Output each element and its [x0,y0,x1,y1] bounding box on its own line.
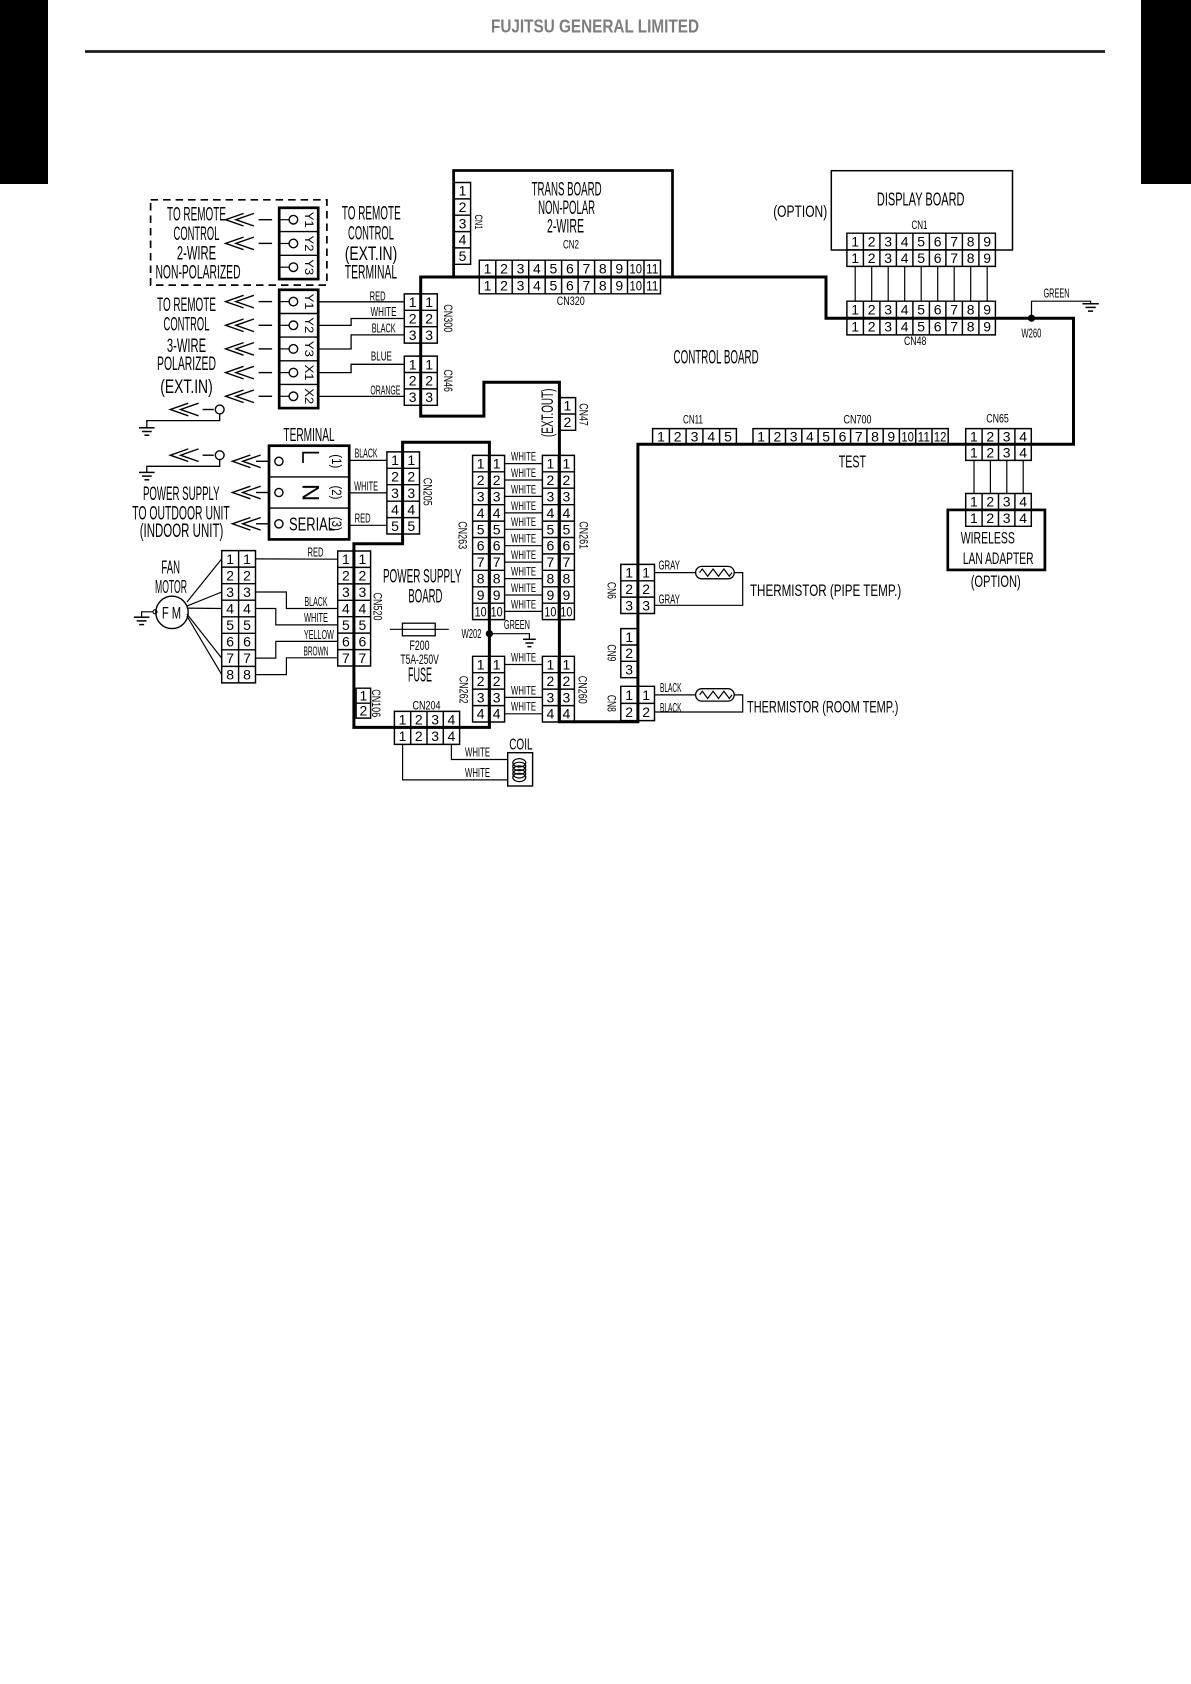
svg-text:1: 1 [970,494,978,510]
wire RED terminal3-CN205.5 [349,524,387,526]
svg-text:4: 4 [226,601,234,617]
svg-text:WHITE: WHITE [511,499,536,513]
svg-text:CONTROL BOARD: CONTROL BOARD [674,348,759,369]
connector CN46 [404,356,437,405]
svg-text:1: 1 [484,277,492,293]
page title FUJITSU GENERAL LIMITED [491,16,699,37]
label TO REMOTE CONTROL 3-WIRE POLARIZED (EXT.IN) [157,295,216,398]
svg-text:SERIAL: SERIAL [289,514,335,534]
wire GREEN to earth [1032,301,1091,318]
svg-text:3: 3 [493,488,501,504]
svg-text:7: 7 [477,554,485,570]
svg-text:5: 5 [493,521,501,537]
labels WHITE (10) [511,450,536,612]
fuse F200 T5A-250V [402,623,435,636]
svg-text:1: 1 [757,428,765,444]
label GREEN W202 [504,618,530,632]
svg-text:1: 1 [851,250,859,266]
svg-text:8: 8 [547,571,555,587]
svg-text:11: 11 [646,261,659,277]
label WHITE fan [304,611,328,625]
svg-text:3: 3 [884,302,892,318]
svg-text:2: 2 [409,311,417,327]
svg-text:TO REMOTE: TO REMOTE [342,203,401,224]
svg-text:2: 2 [391,469,399,485]
svg-text:4: 4 [493,706,501,722]
svg-text:6: 6 [563,538,571,554]
label CN65 [986,412,1009,426]
svg-text:7: 7 [359,650,367,666]
svg-text:BLACK: BLACK [660,701,682,715]
svg-text:2: 2 [868,234,876,250]
svg-text:1: 1 [459,183,467,199]
svg-text:6: 6 [934,302,942,318]
label (EXT.OUT) [538,389,557,438]
label CN1 (display board) [912,218,928,232]
label BLACK CN8.1 [660,681,682,695]
svg-text:CN48: CN48 [904,334,927,348]
svg-text:4: 4 [547,505,555,521]
svg-text:DISPLAY BOARD: DISPLAY BOARD [877,189,965,210]
svg-text:3: 3 [884,318,892,334]
arrow to terminal (2) [232,486,269,499]
svg-text:ORANGE: ORANGE [370,383,400,397]
label TO REMOTE CONTROL (EXT.IN) TERMINAL [342,203,401,283]
svg-text:3: 3 [431,728,439,744]
svg-text:1: 1 [563,657,571,673]
svg-text:N: N [297,484,324,501]
svg-text:7: 7 [563,554,571,570]
svg-text:2-WIRE: 2-WIRE [547,216,584,237]
svg-text:RED: RED [370,289,386,303]
svg-text:FUJITSU GENERAL LIMITED: FUJITSU GENERAL LIMITED [491,16,699,37]
svg-text:TERMINAL: TERMINAL [283,425,334,445]
svg-text:3: 3 [563,488,571,504]
svg-text:2: 2 [500,277,508,293]
svg-text:2: 2 [477,673,485,689]
arrow to 3-wire X2 [226,390,273,403]
svg-text:10: 10 [491,603,503,619]
svg-text:3: 3 [409,389,417,405]
svg-text:1: 1 [493,657,501,673]
svg-text:11: 11 [918,428,931,444]
coil L (choke) [508,753,533,786]
svg-text:CONTROL: CONTROL [174,224,220,245]
label BLACK [372,322,396,336]
wire BLUE X1-CN46.1 [318,364,404,372]
svg-text:4: 4 [901,250,909,266]
wires FM to connector [187,559,222,675]
arrow to 3-wire Y2 [226,319,273,332]
svg-text:7: 7 [583,261,591,277]
svg-text:9: 9 [983,250,991,266]
svg-text:3: 3 [459,215,467,231]
svg-text:2: 2 [243,567,251,583]
svg-text:2: 2 [625,704,633,720]
svg-text:4: 4 [533,261,541,277]
svg-text:3: 3 [391,485,399,501]
svg-text:3: 3 [517,261,525,277]
svg-text:BLACK: BLACK [372,322,396,336]
svg-text:1: 1 [399,712,407,728]
connector CN700 [753,428,948,444]
svg-text:2: 2 [625,645,633,661]
svg-text:2: 2 [459,199,467,215]
left margin bar [0,0,48,184]
svg-text:4: 4 [547,706,555,722]
svg-text:3: 3 [477,689,485,705]
label FAN MOTOR [155,556,187,597]
svg-text:CN106: CN106 [369,689,383,717]
svg-text:WHITE: WHITE [511,700,536,714]
svg-text:3: 3 [425,389,433,405]
svg-text:3: 3 [243,584,251,600]
svg-text:8: 8 [967,318,975,334]
fan motor ground wire [142,610,157,617]
svg-text:2: 2 [500,261,508,277]
svg-text:(EXT.IN): (EXT.IN) [160,377,212,398]
svg-text:4: 4 [448,712,456,728]
svg-text:5: 5 [550,277,558,293]
svg-text:6: 6 [547,538,555,554]
svg-text:4: 4 [243,601,251,617]
svg-text:10: 10 [544,603,556,619]
label CN260 [575,676,589,704]
svg-text:WHITE: WHITE [511,581,536,595]
wire to ground 2 [147,460,220,473]
svg-text:3: 3 [642,597,650,613]
svg-text:6: 6 [934,234,942,250]
svg-text:3: 3 [517,277,525,293]
label DISPLAY BOARD [877,189,965,210]
display board outline [831,171,1012,250]
svg-text:4: 4 [477,706,485,722]
svg-text:WHITE: WHITE [304,611,328,625]
svg-text:6: 6 [839,428,847,444]
svg-text:4: 4 [901,234,909,250]
label TERMINAL [283,425,334,445]
svg-text:9: 9 [563,587,571,603]
junction W260 [1028,315,1035,322]
svg-text:6: 6 [342,633,350,649]
svg-text:3: 3 [790,428,798,444]
svg-text:GRAY: GRAY [658,593,680,607]
svg-text:WHITE: WHITE [511,532,536,546]
svg-text:2: 2 [986,429,994,445]
svg-text:2: 2 [986,510,994,526]
label T5A-250V [400,652,439,667]
svg-text:4: 4 [493,505,501,521]
svg-text:10: 10 [901,428,914,444]
wire WHITE Y2-CN300.2 [318,319,404,326]
label CN204 [413,699,441,713]
svg-text:7: 7 [950,318,958,334]
svg-text:1: 1 [625,629,633,645]
wire YELLOW fan7-CN520.6 [256,641,338,658]
svg-text:BLACK: BLACK [660,681,682,695]
label W202 [462,627,482,641]
svg-text:2: 2 [642,581,650,597]
svg-text:3: 3 [425,327,433,343]
svg-text:CN11: CN11 [683,412,703,426]
svg-text:3: 3 [1003,510,1011,526]
svg-text:2-WIRE: 2-WIRE [177,244,216,265]
svg-text:Y1: Y1 [302,294,316,310]
svg-text:3: 3 [226,584,234,600]
svg-text:3: 3 [407,485,415,501]
connector CN106 [356,688,371,719]
svg-text:CN261: CN261 [577,521,591,549]
svg-text:4: 4 [563,706,571,722]
svg-text:1: 1 [477,456,485,472]
svg-text:TO REMOTE: TO REMOTE [157,295,216,316]
ground (GREEN W260) [1082,304,1098,311]
junction W202 [486,630,493,637]
svg-text:5: 5 [547,521,555,537]
svg-text:CONTROL: CONTROL [348,224,394,245]
svg-text:3: 3 [1003,494,1011,510]
svg-text:CN260: CN260 [575,676,589,704]
terminal N symbol [297,484,324,501]
svg-text:2: 2 [407,469,415,485]
svg-text:4: 4 [1019,494,1027,510]
svg-text:3: 3 [1003,444,1011,460]
label CN46 [441,369,455,392]
svg-text:7: 7 [950,234,958,250]
svg-text:POWER SUPPLY: POWER SUPPLY [383,567,462,588]
svg-text:3: 3 [884,234,892,250]
svg-text:5: 5 [917,250,925,266]
arrow to terminal (3) [232,518,269,531]
label CN6 [605,582,619,599]
svg-text:9: 9 [493,587,501,603]
connector CN11 [653,428,737,444]
control board outline [421,277,1074,722]
svg-text:W260: W260 [1021,326,1041,340]
svg-text:6: 6 [566,277,574,293]
svg-text:6: 6 [934,250,942,266]
label CN11 [683,412,703,426]
thermistor pipe temp element [696,566,735,578]
svg-text:1: 1 [359,551,367,567]
wire WHITE CN204.1-coil [403,744,508,780]
label POWER SUPPLY TO OUTDOOR UNIT (INDOOR UNIT) [132,484,230,542]
label WIRELESS LAN ADAPTER [961,529,1034,568]
svg-text:BLACK: BLACK [355,447,378,461]
label GREEN [1044,287,1070,301]
svg-text:2: 2 [868,302,876,318]
svg-text:2: 2 [563,673,571,689]
svg-text:(2): (2) [329,486,345,500]
label WHITE [371,305,397,319]
wire GRAY CN6.1 [655,572,696,574]
svg-text:2: 2 [226,567,234,583]
svg-text:(OPTION): (OPTION) [773,202,827,221]
svg-text:9: 9 [615,261,623,277]
connector CN6 [621,564,655,613]
wires CN262-CN260 WHITE (3) [505,665,543,714]
svg-text:7: 7 [950,302,958,318]
svg-text:THERMISTOR (ROOM TEMP.): THERMISTOR (ROOM TEMP.) [747,697,898,716]
wire to ground 1 [147,414,220,428]
svg-text:5: 5 [342,617,350,633]
svg-text:9: 9 [615,277,623,293]
label RED [370,289,386,303]
thermistor room temp element [696,689,735,701]
svg-text:3: 3 [547,488,555,504]
wire W202 to earth [489,634,529,640]
svg-text:8: 8 [871,428,879,444]
connector CN48 [847,301,996,335]
svg-text:4: 4 [806,428,814,444]
svg-text:3: 3 [493,689,501,705]
svg-text:2: 2 [564,414,572,430]
svg-text:1: 1 [407,452,415,468]
terminal L symbol [303,453,319,463]
svg-text:WHITE: WHITE [511,515,536,529]
svg-text:2: 2 [493,472,501,488]
svg-text:3: 3 [884,250,892,266]
svg-text:5: 5 [459,248,467,264]
svg-text:TO REMOTE: TO REMOTE [167,204,226,225]
svg-text:CN320: CN320 [557,294,585,308]
label GRAY 1 [658,558,680,572]
svg-text:8: 8 [563,571,571,587]
svg-text:4: 4 [901,318,909,334]
label THERMISTOR (PIPE TEMP.) [750,581,901,600]
label BLACK fan [305,595,328,609]
svg-text:2: 2 [986,444,994,460]
svg-text:BLACK: BLACK [305,595,328,609]
wire ORANGE X2-CN46.3 [318,395,404,397]
label CN262 [457,676,471,704]
svg-text:CN8: CN8 [605,695,619,712]
labels WHITE CN262-CN260 [511,651,536,714]
svg-text:1: 1 [477,657,485,673]
svg-text:(1): (1) [329,454,345,468]
svg-text:CONTROL: CONTROL [164,315,210,336]
svg-text:GREEN: GREEN [1044,287,1070,301]
svg-text:CN204: CN204 [413,699,441,713]
label CN700 [844,412,872,426]
label TO REMOTE CONTROL 2-WIRE NON-POLARIZED [155,204,240,283]
svg-text:2: 2 [359,568,367,584]
svg-text:2: 2 [547,673,555,689]
svg-text:1: 1 [851,302,859,318]
connector CN262 [473,656,505,722]
svg-text:5: 5 [226,617,234,633]
connector CN1 (display board) [847,233,996,266]
svg-text:5: 5 [917,318,925,334]
svg-text:5: 5 [477,521,485,537]
svg-text:LAN ADAPTER: LAN ADAPTER [963,549,1034,568]
svg-text:CN1: CN1 [912,218,928,232]
svg-text:WHITE: WHITE [354,479,378,493]
svg-text:(INDOOR UNIT): (INDOOR UNIT) [140,521,224,542]
svg-text:1: 1 [409,294,417,310]
svg-text:6: 6 [934,318,942,334]
svg-text:3: 3 [409,327,417,343]
svg-text:6: 6 [477,538,485,554]
wire BROWN fan8-CN520.7 [256,658,338,675]
svg-text:Y3: Y3 [302,341,316,357]
label (OPTION) display board [773,202,827,221]
svg-text:4: 4 [477,505,485,521]
svg-text:Y1: Y1 [302,212,316,228]
svg-text:8: 8 [967,250,975,266]
svg-text:2: 2 [415,728,423,744]
label TEST [839,452,866,472]
svg-text:CN300: CN300 [441,304,455,332]
svg-text:(EXT.OUT): (EXT.OUT) [538,389,557,438]
svg-text:WHITE: WHITE [465,746,490,760]
svg-text:Y2: Y2 [302,317,316,333]
svg-text:8: 8 [477,571,485,587]
label CN8 [605,695,619,712]
svg-text:BROWN: BROWN [304,645,329,659]
svg-text:1: 1 [625,565,633,581]
label THERMISTOR (ROOM TEMP.) [747,697,898,716]
svg-text:2: 2 [409,373,417,389]
terminal circles and (1)(2)(3) [275,454,345,531]
power supply board outline [354,442,490,727]
svg-text:2: 2 [868,250,876,266]
svg-text:WHITE: WHITE [511,482,536,496]
svg-text:1: 1 [391,452,399,468]
svg-text:7: 7 [547,554,555,570]
label CN263 [456,521,470,549]
svg-text:4: 4 [707,428,715,444]
svg-text:7: 7 [226,650,234,666]
svg-text:RED: RED [308,545,324,559]
svg-text:CN205: CN205 [420,478,434,506]
svg-text:CN9: CN9 [605,644,619,661]
dashed option box 2-wire remote [151,200,327,285]
svg-text:CN520: CN520 [371,593,385,621]
svg-text:Y2: Y2 [302,236,316,252]
label RED fan [308,545,324,559]
svg-text:4: 4 [459,232,467,248]
svg-text:CN47: CN47 [576,403,590,426]
svg-text:8: 8 [967,302,975,318]
svg-text:4: 4 [1019,510,1027,526]
svg-text:WHITE: WHITE [511,651,536,665]
svg-text:8: 8 [599,261,607,277]
svg-text:7: 7 [583,277,591,293]
svg-text:9: 9 [983,234,991,250]
svg-text:9: 9 [983,302,991,318]
svg-text:8: 8 [599,277,607,293]
wireless LAN adapter box [948,510,1045,570]
svg-text:Y3: Y3 [302,259,316,275]
svg-text:WHITE: WHITE [511,466,536,480]
connector CN520 [338,551,371,666]
svg-text:CN1: CN1 [472,215,484,230]
svg-text:2: 2 [625,581,633,597]
label CN320 [557,294,585,308]
wire WHITE CN204.4-coil [451,744,507,759]
label WHITE terminal [354,479,378,493]
svg-text:2: 2 [415,712,423,728]
connector CN263 [473,455,505,619]
svg-text:X2: X2 [302,388,316,404]
wires CN1-CN48 (9) [855,266,987,301]
svg-text:4: 4 [563,505,571,521]
svg-text:1: 1 [970,444,978,460]
svg-text:TERMINAL: TERMINAL [345,263,397,284]
svg-text:5: 5 [822,428,830,444]
svg-text:2: 2 [342,568,350,584]
